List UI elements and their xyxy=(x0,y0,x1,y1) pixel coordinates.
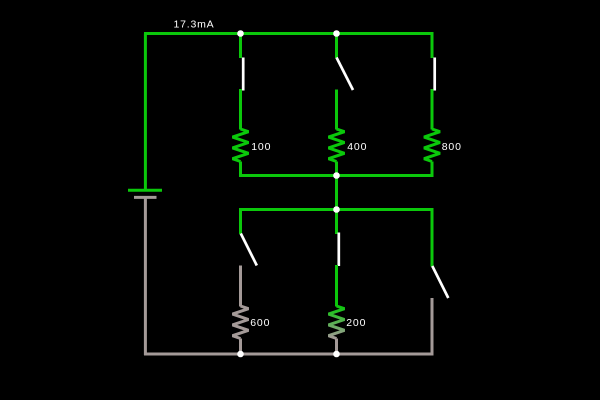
wire switch S6 lower post to bottom rail xyxy=(431,298,434,355)
wire branch 1 upper lead xyxy=(239,34,242,59)
resistor R2 zigzag xyxy=(329,129,345,161)
wire resistor R5 to bottom rail xyxy=(335,339,338,356)
wire switch S3 to resistor R3 xyxy=(431,89,434,130)
switch S5 closed blade xyxy=(337,233,340,267)
svg-text:17.3mA: 17.3mA xyxy=(174,19,215,31)
wire top rail xyxy=(144,32,434,35)
wire resistor R4 to bottom rail xyxy=(239,339,242,356)
node junction first bus link xyxy=(333,172,340,179)
wire resistor R1 to first bus xyxy=(239,162,242,178)
node junction bottom rail branch 5 xyxy=(333,351,340,358)
resistor R1 zigzag xyxy=(233,129,249,161)
wire battery negative terminal to bottom rail xyxy=(144,197,147,355)
switch S6 open blade xyxy=(432,266,448,298)
svg-text:800: 800 xyxy=(442,141,462,153)
switch S4 open blade xyxy=(241,234,257,266)
wire bottom rail xyxy=(144,353,434,356)
switch S2 open blade xyxy=(337,58,354,91)
wire switch S2 lower post to resistor R2 xyxy=(335,90,338,130)
svg-text:100: 100 xyxy=(251,141,271,153)
svg-text:600: 600 xyxy=(250,317,270,329)
wire second bus (middle rail) xyxy=(239,208,434,211)
node junction second bus link xyxy=(333,206,340,213)
node junction top rail branch 1 xyxy=(237,30,244,37)
resistor R5 zigzag voltage gradient xyxy=(329,306,345,338)
svg-text:400: 400 xyxy=(347,141,367,153)
resistor R3 zigzag xyxy=(424,129,440,161)
wire resistor R3 to first bus xyxy=(431,162,434,178)
resistor R4 zigzag xyxy=(233,306,249,338)
wire branch 3 upper lead xyxy=(431,32,434,58)
wire link between first bus and second bus xyxy=(335,176,338,210)
wire first bus (top section bottom rail) xyxy=(239,174,434,177)
battery B1 voltage source positive plate xyxy=(128,189,162,192)
battery B1 voltage source negative plate xyxy=(134,196,157,199)
wire resistor R2 to first bus xyxy=(335,162,338,178)
wire branch 2 upper lead xyxy=(335,34,338,59)
wire battery positive terminal to top-left corner xyxy=(144,34,147,190)
wire branch 4 upper lead xyxy=(239,208,242,234)
wire switch S4 lower post to resistor R4 xyxy=(239,266,242,307)
node junction bottom rail branch 4 xyxy=(237,351,244,358)
wire switch S1 to resistor R1 xyxy=(239,89,242,130)
svg-text:200: 200 xyxy=(346,317,366,329)
switch S3 closed blade xyxy=(433,58,436,91)
node junction top rail branch 2 xyxy=(333,30,340,37)
wire branch 5 upper lead xyxy=(335,208,338,234)
switch S1 closed blade xyxy=(242,58,245,91)
wire switch S5 to resistor R5 xyxy=(335,265,338,307)
wire branch 6 upper lead xyxy=(431,208,434,267)
